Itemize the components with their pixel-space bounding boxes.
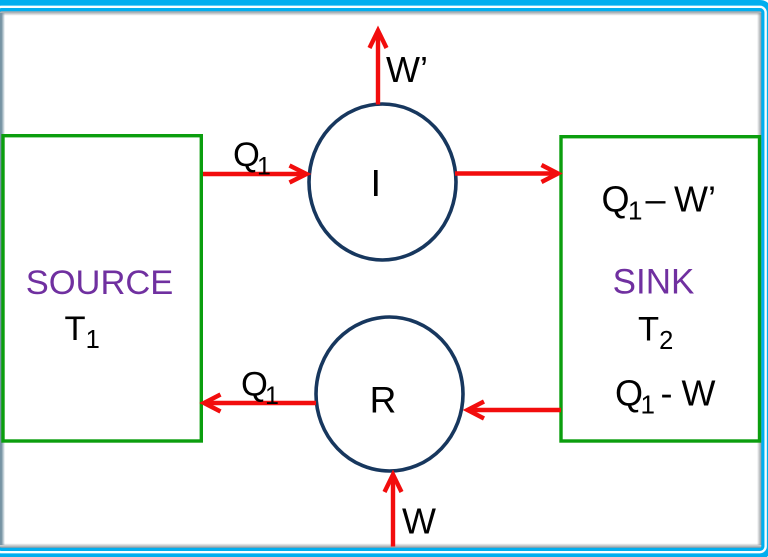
arrow Q1: source to circle I: [203, 166, 307, 183]
sink box: [561, 137, 760, 441]
circle I: [309, 104, 456, 260]
svg-text:Q1-W: Q1-W: [615, 373, 716, 420]
label I: [374, 170, 378, 196]
top inner shadow: [0, 11, 768, 16]
svg-text:W: W: [402, 501, 436, 542]
arrow: sink to circle R: [468, 402, 562, 419]
source box: [3, 136, 201, 441]
arrow: circle I to sink: [455, 165, 558, 182]
svg-text:Q1–W’: Q1–W’: [602, 179, 716, 226]
svg-text:W’: W’: [386, 49, 428, 90]
arrow W: bottom up into circle R: [385, 475, 402, 547]
svg-text:R: R: [370, 380, 397, 421]
left gray crop line: [0, 13, 5, 545]
arrow Q1: circle R to source: [204, 395, 316, 412]
right inner shadow: [757, 13, 762, 545]
circle R: [316, 317, 463, 471]
svg-text:SINK: SINK: [613, 263, 695, 302]
arrow W': circle I up: [370, 31, 387, 105]
svg-text:SOURCE: SOURCE: [26, 264, 174, 302]
bottom inner shadow: [0, 543, 768, 548]
